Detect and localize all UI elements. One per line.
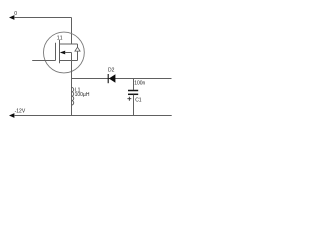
transistor T1 bulk arrow	[60, 51, 65, 55]
svg-text:D2: D2	[108, 68, 115, 74]
capacitor C1 lead top	[133, 79, 135, 90]
transistor T1 body diode cathode bar	[75, 46, 80, 48]
inductor L1 coil	[72, 87, 74, 105]
wire drain lead	[71, 18, 73, 45]
transistor T1 body diode branch lower	[77, 51, 79, 61]
capacitor C1 bottom plate	[128, 93, 138, 95]
transistor T1 bulk/source vertical	[71, 53, 73, 79]
svg-text:100µH: 100µH	[75, 92, 90, 98]
diode D2 cathode bar	[107, 74, 109, 83]
wire mid rail	[72, 78, 172, 80]
capacitor C1 plus sign	[127, 97, 131, 101]
wire inductor/source lead	[71, 79, 73, 116]
capacitor C1 lead bottom	[133, 95, 135, 116]
svg-text:100n: 100n	[134, 81, 145, 87]
wire bottom rail	[14, 115, 172, 117]
transistor T1 drain stub	[60, 43, 78, 45]
transistor T1 source stub	[60, 60, 78, 62]
wire top rail	[14, 17, 72, 19]
transistor T1 body circle	[44, 32, 85, 73]
svg-text:-12V: -12V	[15, 108, 26, 114]
transistor T1 body diode triangle	[75, 47, 80, 51]
transistor T1 body diode branch upper	[77, 44, 79, 47]
node 0 (top rail) arrow	[9, 15, 14, 20]
transistor T1 channel bar	[59, 40, 61, 64]
diode D2 triangle	[109, 74, 116, 83]
rail -12V arrow	[9, 113, 14, 118]
svg-text:0: 0	[14, 11, 17, 17]
transistor T1 gate stub wire	[32, 60, 55, 62]
capacitor C1 top plate	[128, 90, 138, 92]
svg-text:C1: C1	[135, 97, 142, 103]
transistor T1 gate bar	[55, 43, 57, 61]
